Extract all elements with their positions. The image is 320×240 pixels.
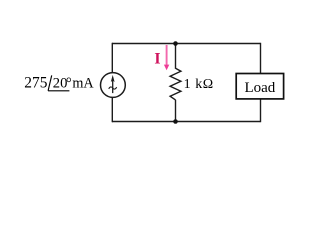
svg-text:I: I [154, 51, 160, 68]
angle underline [48, 90, 69, 92]
svg-text:Load: Load [244, 80, 275, 96]
wire bottom [112, 121, 261, 123]
wire left upper [111, 43, 113, 73]
wire right lower [260, 99, 262, 122]
wire middle branch upper [175, 44, 177, 69]
wire left lower [111, 98, 113, 123]
current source U1 circle [101, 73, 126, 98]
wire middle branch lower [175, 100, 177, 122]
resistor R zigzag [170, 68, 181, 100]
svg-text:1 kΩ: 1 kΩ [184, 77, 214, 92]
angle slash [48, 75, 52, 90]
svg-text:mA: mA [72, 76, 94, 92]
node top junction dot [173, 41, 178, 46]
current source arrow [112, 80, 114, 93]
current arrow I [166, 45, 168, 65]
wire right upper [260, 43, 262, 74]
node bottom junction dot [173, 119, 178, 124]
Load box [236, 74, 283, 99]
svg-text:°: ° [66, 76, 72, 92]
current source tilde [109, 87, 117, 89]
svg-text:275: 275 [24, 75, 47, 92]
wire top [112, 43, 261, 45]
